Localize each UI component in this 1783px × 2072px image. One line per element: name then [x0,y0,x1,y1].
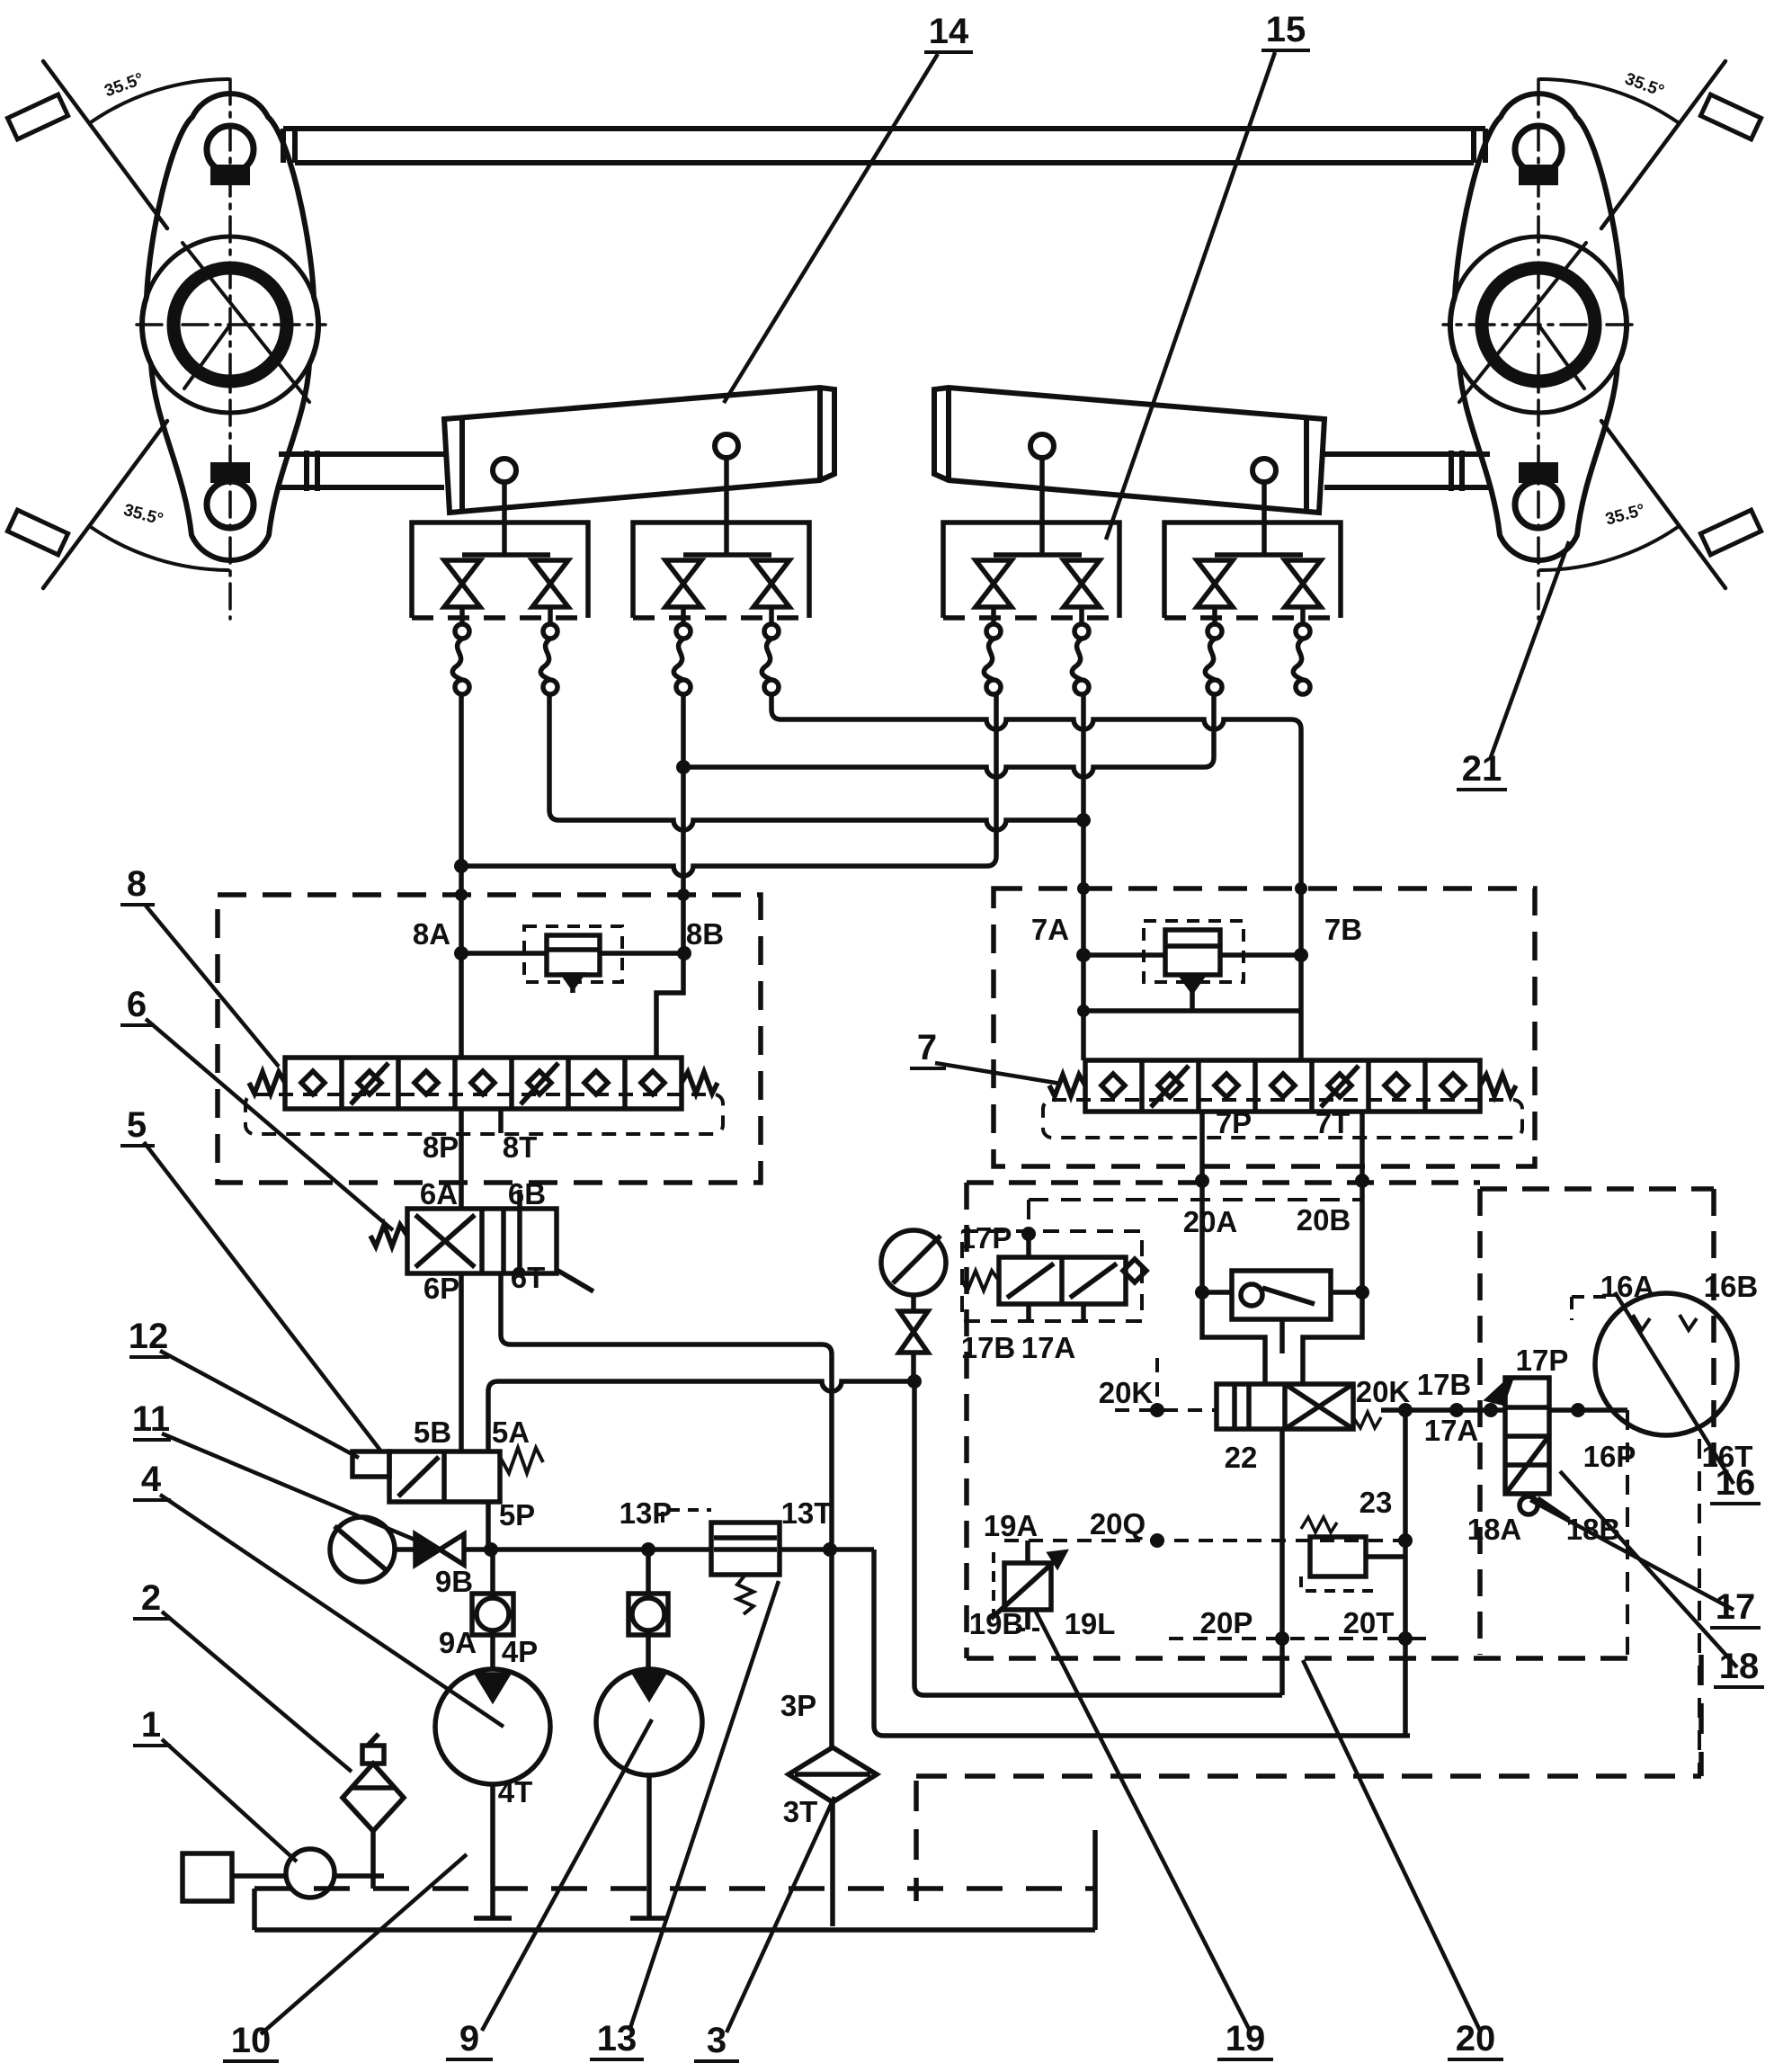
svg-text:19: 19 [1226,2019,1266,2059]
svg-text:23: 23 [1360,1486,1393,1519]
svg-text:1: 1 [141,1705,161,1745]
svg-text:17: 17 [1716,1587,1756,1627]
svg-text:22: 22 [1225,1441,1258,1474]
svg-text:16B: 16B [1704,1270,1759,1303]
svg-text:16A: 16A [1600,1270,1655,1303]
svg-text:4: 4 [141,1460,162,1499]
svg-text:17B: 17B [961,1331,1016,1364]
svg-text:20Q: 20Q [1090,1507,1146,1541]
svg-text:20P: 20P [1200,1606,1253,1639]
svg-text:7P: 7P [1216,1106,1252,1139]
svg-text:5P: 5P [499,1498,535,1532]
svg-text:19B: 19B [969,1607,1024,1640]
svg-text:17B: 17B [1417,1368,1472,1401]
svg-text:6B: 6B [508,1177,546,1210]
svg-text:17P: 17P [1516,1344,1569,1377]
svg-text:7A: 7A [1031,913,1069,946]
svg-text:10: 10 [231,2021,272,2060]
svg-text:8B: 8B [686,917,724,951]
svg-text:12: 12 [129,1317,169,1356]
svg-text:5B: 5B [414,1416,451,1449]
svg-text:4P: 4P [502,1635,538,1668]
svg-text:18B: 18B [1566,1513,1621,1546]
svg-text:9B: 9B [435,1565,473,1598]
svg-text:17A: 17A [1424,1414,1479,1447]
svg-text:20A: 20A [1183,1205,1238,1238]
svg-text:3: 3 [707,2021,727,2060]
svg-text:4T: 4T [498,1775,533,1809]
svg-text:8P: 8P [423,1130,459,1164]
svg-text:2: 2 [141,1578,161,1618]
svg-text:13T: 13T [781,1496,833,1530]
svg-text:5: 5 [127,1105,147,1145]
svg-text:3T: 3T [783,1795,818,1828]
svg-text:15: 15 [1266,10,1306,49]
svg-text:8A: 8A [413,917,450,951]
svg-text:20K: 20K [1099,1376,1154,1409]
svg-text:7B: 7B [1324,913,1362,946]
svg-text:13P: 13P [620,1496,673,1530]
svg-text:17P: 17P [959,1221,1012,1255]
svg-text:20B: 20B [1297,1203,1351,1237]
svg-text:21: 21 [1462,749,1502,789]
svg-text:7: 7 [917,1028,937,1067]
svg-text:5A: 5A [492,1416,530,1449]
svg-text:3P: 3P [780,1689,816,1722]
svg-text:16T: 16T [1702,1440,1753,1473]
svg-text:16P: 16P [1583,1440,1636,1473]
svg-text:19A: 19A [984,1509,1039,1542]
svg-text:9: 9 [459,2019,479,2059]
svg-text:17A: 17A [1021,1331,1076,1364]
svg-text:8T: 8T [503,1130,538,1164]
svg-text:8: 8 [127,864,147,904]
svg-text:18: 18 [1719,1647,1760,1686]
svg-text:18A: 18A [1467,1513,1522,1546]
svg-text:11: 11 [132,1399,170,1439]
svg-text:6A: 6A [420,1177,458,1210]
svg-text:9A: 9A [439,1626,477,1659]
svg-text:6T: 6T [511,1261,546,1294]
svg-text:20: 20 [1456,2019,1496,2059]
svg-text:20K: 20K [1356,1375,1411,1408]
svg-text:20T: 20T [1343,1606,1395,1639]
svg-text:6: 6 [127,985,147,1024]
svg-text:14: 14 [929,12,969,51]
svg-text:7T: 7T [1315,1106,1351,1139]
svg-text:13: 13 [597,2019,637,2059]
svg-text:6P: 6P [423,1272,459,1305]
svg-text:19L: 19L [1065,1607,1116,1640]
